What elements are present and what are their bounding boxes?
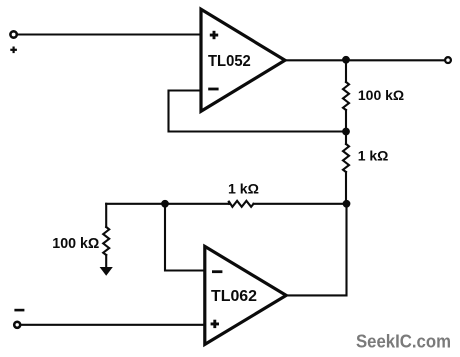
- resistor R3 1 kOhm (horizontal): [229, 201, 254, 207]
- wire: input- to U2 noninverting input: [21, 324, 205, 326]
- wire: R4 to ground: [105, 255, 107, 267]
- label - for input terminal: [14, 309, 24, 312]
- pin label + of U2: [211, 320, 219, 328]
- op-amp U1 TL052: [201, 9, 285, 111]
- wire: R1 to node B: [345, 110, 347, 132]
- resistor R2 1 kOhm (vertical): [343, 144, 349, 172]
- node B (junction R1/R2/feedback): [342, 128, 350, 136]
- svg-text:TL052: TL052: [208, 53, 251, 70]
- wire: node B down to resistor R2: [345, 132, 347, 145]
- node C (junction R2/R3/U2 output): [343, 200, 351, 208]
- wire: corner down to resistor R4: [105, 204, 107, 227]
- wire: input+ to U1 noninverting input: [18, 33, 201, 35]
- node A (U1 output junction): [342, 56, 350, 64]
- wire: node D down and right to U2 inverting input: [165, 204, 205, 271]
- wire: R2 to node C: [345, 172, 347, 204]
- pin label - of U2: [212, 270, 222, 273]
- svg-text:SeekIC.com: SeekIC.com: [356, 332, 451, 352]
- resistor R1 100 kOhm (vertical): [343, 82, 349, 110]
- ground: [100, 267, 113, 276]
- label + for input terminal: [10, 47, 17, 54]
- svg-text:100 kΩ: 100 kΩ: [52, 236, 99, 252]
- wire: U2 output right and up to node C: [286, 204, 346, 296]
- pin label + of U1: [210, 31, 218, 39]
- node D (junction to U2 inverting input): [161, 200, 169, 208]
- op-amp U2 TL062: [205, 246, 286, 344]
- svg-text:100 kΩ: 100 kΩ: [358, 87, 404, 103]
- svg-text:1 kΩ: 1 kΩ: [358, 148, 389, 164]
- svg-text:1 kΩ: 1 kΩ: [228, 181, 259, 197]
- input terminal + (top left): [10, 31, 16, 37]
- output terminal (open circle, right): [445, 57, 451, 63]
- wire: U1 inverting input feedback (left, down, right to node B): [169, 91, 347, 132]
- wire: node A down to resistor R1: [345, 60, 347, 82]
- wire: U1 output to output terminal: [285, 59, 444, 61]
- pin label - of U1: [208, 88, 218, 91]
- wire: R3 left to corner and node D: [106, 203, 229, 205]
- wire: node C left to resistor R3: [254, 203, 347, 205]
- input terminal - (bottom left): [14, 322, 20, 328]
- svg-text:TL062: TL062: [211, 288, 257, 305]
- resistor R4 100 kOhm (vertical, to ground): [103, 227, 109, 255]
